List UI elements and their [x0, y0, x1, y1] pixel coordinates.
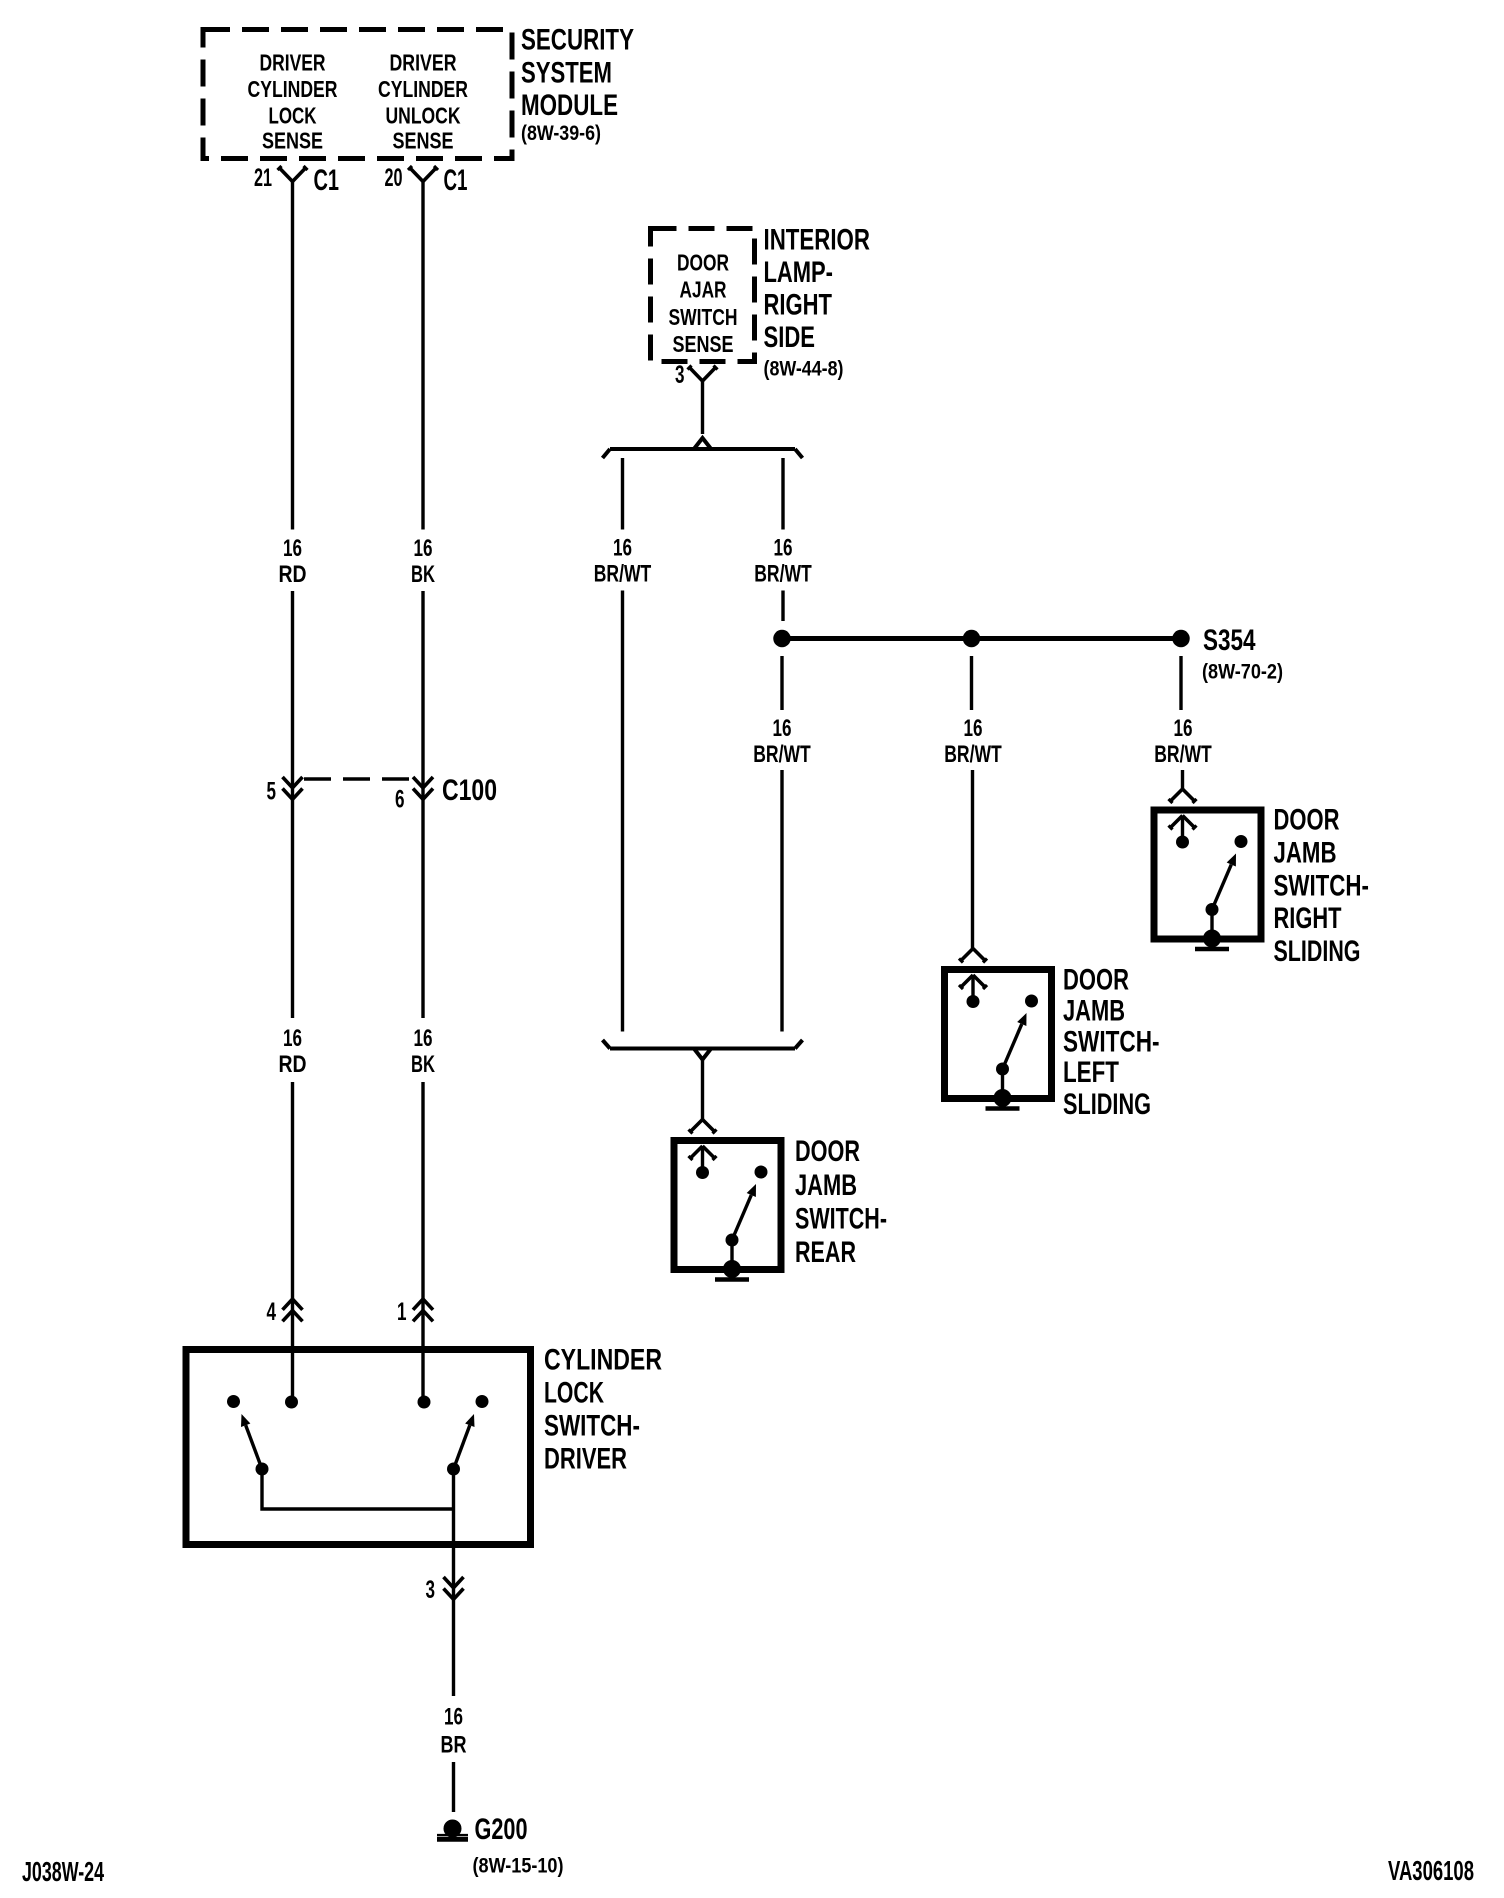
svg-text:LAMP-: LAMP- — [764, 256, 834, 289]
wire: right branch 16 BR/WT (to splice S354) — [781, 458, 784, 621]
svg-text:VA306108: VA306108 — [1388, 1855, 1474, 1886]
splice bracket lower (harness merge) — [603, 1040, 803, 1060]
label: DOOR JAMB SWITCH-LEFT SLIDING — [1063, 964, 1160, 1122]
svg-text:21: 21 — [254, 164, 272, 192]
svg-text:RD: RD — [279, 561, 307, 588]
svg-text:SYSTEM: SYSTEM — [521, 57, 612, 90]
svg-text:RIGHT: RIGHT — [1274, 902, 1342, 935]
svg-text:C1: C1 — [314, 164, 340, 197]
wire label 16 BR/WT (left branch) — [594, 535, 652, 588]
connector C100 pin 5 (double chevron) — [267, 777, 303, 806]
svg-text:16: 16 — [283, 535, 302, 562]
svg-text:SWITCH-: SWITCH- — [795, 1203, 887, 1236]
svg-text:C100: C100 — [442, 774, 497, 807]
svg-text:16: 16 — [414, 535, 433, 562]
svg-text:16: 16 — [414, 1025, 433, 1052]
label: CYLINDER LOCK SWITCH-DRIVER — [544, 1344, 662, 1476]
svg-text:INTERIOR: INTERIOR — [764, 224, 871, 257]
svg-text:SLIDING: SLIDING — [1274, 935, 1361, 968]
svg-text:5: 5 — [267, 778, 277, 806]
wire: branch to left sliding door jamb switch 16 BR/WT — [972, 656, 973, 951]
svg-text:BK: BK — [411, 1051, 435, 1078]
svg-text:BR: BR — [441, 1732, 467, 1759]
svg-text:LOCK: LOCK — [269, 103, 317, 129]
svg-text:DRIVER: DRIVER — [544, 1443, 627, 1476]
svg-text:DRIVER: DRIVER — [390, 50, 457, 76]
svg-text:SECURITY: SECURITY — [521, 24, 634, 57]
svg-text:DOOR: DOOR — [677, 250, 729, 276]
wire label 16 BR/WT (right branch) — [754, 535, 812, 588]
wire label 16 RD (upper) — [279, 535, 307, 588]
connector C100 dashed link and label — [304, 774, 497, 807]
svg-text:CYLINDER: CYLINDER — [378, 76, 468, 102]
wire: left branch 16 BR/WT (to merge bracket) — [621, 458, 624, 1032]
svg-text:1: 1 — [397, 1298, 407, 1326]
svg-text:JAMB: JAMB — [1063, 995, 1125, 1028]
component: DOOR JAMB SWITCH-REAR (box, connector, switch) — [674, 1120, 781, 1280]
text: DRIVER CYLINDER LOCK SENSE (pin 21 function) — [248, 50, 338, 154]
label: DOOR JAMB SWITCH-RIGHT SLIDING — [1274, 804, 1370, 969]
connector pin 1 (double chevron up) — [397, 1298, 433, 1326]
svg-text:RIGHT: RIGHT — [764, 289, 833, 322]
svg-text:16: 16 — [964, 715, 983, 742]
svg-text:DRIVER: DRIVER — [260, 50, 326, 76]
wire: internal common link — [262, 1469, 454, 1509]
svg-text:BR/WT: BR/WT — [944, 741, 1002, 768]
svg-text:BK: BK — [411, 561, 435, 588]
svg-text:SENSE: SENSE — [673, 331, 734, 357]
wire label 16 RD (lower) — [279, 1025, 307, 1078]
wire label 16 BR — [441, 1704, 467, 1759]
wire label 16 BK (upper) — [411, 535, 435, 588]
module: SECURITY SYSTEM MODULE dashed box — [203, 30, 512, 159]
svg-text:CYLINDER: CYLINDER — [544, 1344, 662, 1377]
component: DOOR JAMB SWITCH-LEFT SLIDING (box, connector, switch) — [945, 949, 1052, 1109]
switch contacts: cylinder lock switch terminals — [227, 1395, 489, 1476]
svg-text:SWITCH-: SWITCH- — [1274, 870, 1370, 903]
wire: switch common to ground, 16 BR — [452, 1469, 455, 1812]
svg-text:(8W-39-6): (8W-39-6) — [521, 121, 601, 145]
svg-text:SWITCH: SWITCH — [669, 304, 738, 330]
svg-text:16: 16 — [774, 535, 793, 562]
component: DOOR JAMB SWITCH-RIGHT SLIDING (box, connector, switch) — [1154, 789, 1261, 949]
svg-text:LEFT: LEFT — [1063, 1056, 1119, 1089]
svg-text:SIDE: SIDE — [764, 321, 816, 354]
wire: branch to rear door jamb switch 16 BR/WT — [780, 656, 783, 1032]
switch arm left (lock) — [241, 1414, 262, 1469]
splice bracket upper (harness split) — [603, 438, 803, 458]
label: DOOR JAMB SWITCH-REAR — [795, 1135, 887, 1269]
svg-text:SENSE: SENSE — [393, 128, 454, 154]
switch arm right (unlock) — [454, 1414, 475, 1469]
label: S354 (8W-70-2) — [1202, 624, 1283, 684]
svg-text:16: 16 — [613, 535, 632, 562]
svg-text:3: 3 — [426, 1576, 436, 1604]
svg-text:J038W-24: J038W-24 — [22, 1856, 104, 1887]
connector pin 20 C1 (Y connector symbol) — [385, 164, 468, 197]
svg-text:SWITCH-: SWITCH- — [1063, 1026, 1160, 1059]
svg-text:SENSE: SENSE — [262, 128, 323, 154]
svg-text:CYLINDER: CYLINDER — [248, 76, 338, 102]
wire label 16 BR/WT (right sliding branch) — [1154, 715, 1212, 768]
connector pin 3 of interior lamp (Y connector) — [675, 361, 718, 389]
junction dot left (S354) — [773, 630, 791, 648]
svg-text:(8W-44-8): (8W-44-8) — [764, 357, 844, 381]
svg-text:3: 3 — [675, 361, 685, 389]
svg-text:LOCK: LOCK — [544, 1377, 604, 1410]
svg-text:DOOR: DOOR — [1274, 804, 1340, 837]
footer text: J038W-24 — [22, 1856, 104, 1887]
wire: door ajar sense feed — [701, 381, 704, 434]
svg-text:16: 16 — [283, 1025, 302, 1052]
svg-text:AJAR: AJAR — [680, 277, 727, 303]
svg-text:BR/WT: BR/WT — [1154, 741, 1212, 768]
text: DRIVER CYLINDER UNLOCK SENSE (pin 20 function) — [378, 50, 468, 154]
svg-text:JAMB: JAMB — [1274, 837, 1337, 870]
svg-text:RD: RD — [279, 1051, 307, 1078]
splice S354 bus line — [782, 636, 1181, 641]
component box: CYLINDER LOCK SWITCH-DRIVER — [186, 1350, 531, 1545]
svg-text:SWITCH-: SWITCH- — [544, 1410, 640, 1443]
svg-text:UNLOCK: UNLOCK — [386, 103, 461, 129]
svg-text:BR/WT: BR/WT — [754, 561, 812, 588]
wire label 16 BR/WT (rear branch) — [753, 715, 811, 768]
svg-text:4: 4 — [267, 1298, 277, 1326]
connector pin 21 C1 (Y connector symbol) — [254, 164, 339, 197]
connector C100 pin 6 (double chevron) — [395, 777, 433, 814]
wire: branch to right sliding door jamb switch 16 BR/WT — [1181, 656, 1183, 789]
text: DOOR AJAR SWITCH SENSE — [669, 250, 738, 358]
svg-text:MODULE: MODULE — [521, 89, 618, 122]
svg-text:DOOR: DOOR — [1063, 964, 1129, 997]
svg-text:DOOR: DOOR — [795, 1135, 860, 1168]
wire: driver cylinder unlock sense, 16 BK (pin 20 to C100 to pin 1) — [421, 182, 424, 1403]
wire label 16 BK (lower) — [411, 1025, 435, 1078]
svg-text:S354: S354 — [1203, 624, 1256, 657]
wire: driver cylinder lock sense, 16 RD (pin 21 to C100 to pin 4) — [291, 182, 294, 1403]
svg-text:(8W-70-2): (8W-70-2) — [1202, 660, 1283, 684]
svg-text:REAR: REAR — [795, 1236, 856, 1269]
svg-text:16: 16 — [773, 715, 792, 742]
wire: merged feed to rear door jamb switch — [701, 1060, 704, 1123]
junction dot right (S354) — [1172, 630, 1190, 648]
wire label 16 BR/WT (left sliding branch) — [944, 715, 1002, 768]
connector pin 4 (double chevron up) — [267, 1298, 303, 1326]
svg-text:G200: G200 — [475, 1813, 528, 1846]
label: G200 (8W-15-10) — [473, 1813, 564, 1878]
label: SECURITY SYSTEM MODULE (8W-39-6) — [521, 24, 634, 146]
svg-text:JAMB: JAMB — [795, 1169, 857, 1202]
svg-text:(8W-15-10): (8W-15-10) — [473, 1854, 564, 1878]
ground G200 symbol — [437, 1820, 468, 1840]
svg-text:C1: C1 — [444, 164, 468, 197]
svg-text:16: 16 — [1174, 715, 1193, 742]
svg-text:20: 20 — [385, 164, 403, 192]
module: DOOR AJAR SWITCH SENSE dashed box — [651, 229, 755, 362]
svg-text:BR/WT: BR/WT — [594, 561, 652, 588]
svg-text:SLIDING: SLIDING — [1063, 1088, 1151, 1121]
svg-text:6: 6 — [395, 786, 405, 814]
footer text: VA306108 — [1388, 1855, 1474, 1886]
junction dot middle (S354) — [963, 630, 981, 648]
svg-text:BR/WT: BR/WT — [753, 741, 811, 768]
svg-text:16: 16 — [444, 1704, 463, 1731]
label: INTERIOR LAMP-RIGHT SIDE (8W-44-8) — [764, 224, 871, 381]
connector pin 3 (double chevron down) — [426, 1576, 464, 1604]
